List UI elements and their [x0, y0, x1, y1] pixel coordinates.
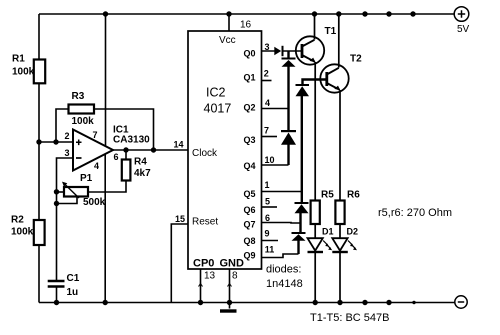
svg-text:4: 4 [94, 161, 99, 171]
svg-text:Q1: Q1 [243, 72, 255, 82]
wire Q0 pin3 to diode and T1 base [262, 50, 303, 52]
capacitor C1 [48, 281, 65, 287]
wire T1 emitter down to R5 [314, 62, 316, 201]
svg-text:4017: 4017 [204, 102, 232, 116]
wire diode chain A vertical Q2-Q4 [287, 145, 289, 166]
node dot top rail pin16 [226, 11, 231, 16]
diode B2 vertical [295, 202, 309, 213]
svg-text:15: 15 [175, 214, 185, 224]
diode A1 vertical [282, 58, 296, 67]
op-amp minus input mark [76, 157, 82, 159]
svg-text:Q4: Q4 [243, 161, 255, 171]
node dot bottom rail spare 2 [386, 300, 391, 305]
node dot bottom rail C1 [54, 300, 59, 305]
svg-text:R3: R3 [72, 91, 85, 102]
wire P1 wiper tie [57, 197, 78, 204]
svg-text:11: 11 [265, 245, 275, 255]
svg-text:IC2: IC2 [206, 86, 226, 100]
svg-text:14: 14 [174, 140, 184, 150]
diode B3 vertical [292, 232, 306, 241]
wire IC2 pin16 Vcc drop [228, 14, 230, 31]
svg-text:R4: R4 [134, 157, 147, 168]
node dot bottom rail spare 3 [412, 301, 415, 304]
node dot pin2 left rail [36, 139, 41, 144]
resistor R4 [122, 160, 131, 181]
diode A2 vertical [281, 130, 296, 145]
svg-text:P1: P1 [80, 173, 93, 184]
node dot top rail spare 3 [410, 11, 415, 16]
wire diode chain A vertical Q0-Q2 [287, 51, 289, 130]
svg-text:1u: 1u [67, 287, 79, 298]
svg-text:Reset: Reset [192, 216, 218, 227]
svg-text:R1: R1 [12, 54, 25, 65]
svg-text:Vcc: Vcc [219, 35, 236, 46]
diode B1 vertical [296, 84, 310, 96]
IC2 4017 box [188, 31, 262, 269]
wire IC2 pin8 drop to ground [229, 269, 231, 309]
ground symbol [220, 309, 237, 312]
op-amp plus input mark [76, 140, 82, 146]
wire chain B B1 to Q5 [301, 96, 303, 202]
svg-text:8: 8 [232, 271, 238, 282]
wire C1 bottom to rail [56, 286, 58, 303]
svg-text:10: 10 [265, 155, 275, 165]
svg-text:500k: 500k [83, 197, 106, 208]
node dot top rail T1 collector [312, 11, 317, 16]
svg-text:9: 9 [265, 229, 270, 239]
wire D1 to bottom rail [314, 253, 316, 303]
LED D1 [308, 238, 333, 252]
wire Q9 pin11 [262, 254, 299, 258]
wire top supply rail [39, 13, 454, 15]
node dot top rail pin7 [103, 11, 108, 16]
wire bottom rail [39, 302, 455, 304]
wire chain B B2 to Q7 [299, 213, 301, 232]
wire D2 to bottom rail [339, 253, 341, 303]
pin tick on pin13 drop [199, 284, 203, 287]
svg-text:100k: 100k [11, 227, 34, 238]
svg-text:Q5: Q5 [243, 189, 255, 199]
svg-text:CP0: CP0 [193, 257, 214, 269]
node dot top rail spare 2 [386, 11, 391, 16]
svg-text:D1: D1 [322, 227, 334, 237]
svg-text:1: 1 [265, 180, 270, 190]
svg-text:5V: 5V [457, 24, 470, 35]
svg-text:T1: T1 [325, 26, 337, 37]
wire R4 top leg [125, 150, 127, 160]
svg-text:diodes:: diodes: [266, 264, 301, 276]
wire Q7 pin6 [262, 222, 301, 225]
wire op-amp pin7 from top rail [105, 14, 107, 146]
svg-text:13: 13 [204, 271, 216, 282]
LED D2 [332, 238, 357, 252]
svg-text:R5: R5 [321, 190, 334, 201]
node dot bottom rail pin13 [198, 300, 203, 305]
wire chain B B3 to Q9 corner [297, 241, 299, 255]
svg-text:Q3: Q3 [243, 135, 255, 145]
svg-text:1n4148: 1n4148 [266, 278, 303, 290]
node dot pin2 R3 junction [53, 139, 58, 144]
svg-text:6: 6 [265, 213, 270, 223]
wire op-amp pin4 down to bottom rail [104, 154, 106, 303]
resistor R3 [69, 105, 95, 114]
potentiometer P1 body [64, 187, 88, 197]
svg-text:D2: D2 [347, 227, 359, 237]
svg-text:6: 6 [114, 152, 119, 162]
svg-text:R6: R6 [347, 190, 360, 201]
svg-text:4: 4 [265, 98, 270, 108]
wire Q1 pin2 stub [262, 80, 272, 82]
svg-text:7: 7 [93, 130, 98, 140]
wire Q5 pin1 [262, 191, 302, 193]
node dot output feedback [151, 147, 156, 152]
wire R5 to LED D1 [314, 224, 316, 238]
svg-text:GND: GND [220, 257, 245, 269]
wire P1 left terminal [57, 191, 65, 193]
svg-text:7: 7 [264, 126, 269, 136]
transistor T2 [320, 64, 348, 92]
wire T2 collector to top rail [338, 14, 340, 68]
node dot P1 wiper [54, 201, 59, 206]
svg-text:r5,r6: 270 Ohm: r5,r6: 270 Ohm [378, 207, 452, 219]
node dot top rail T2 collector [336, 11, 341, 16]
resistor R2 [34, 220, 45, 245]
resistor R5 [311, 201, 320, 225]
wire R3 right leg down to output node [94, 109, 154, 150]
node dot bottom rail D2 [337, 300, 342, 305]
node dot top rail spare 1 [362, 11, 367, 16]
node dot bottom rail pin8 [227, 300, 232, 305]
wire op-amp output to IC2 clock pin14 [113, 149, 188, 151]
wire Q6 pin5 stub [262, 206, 278, 208]
svg-text:CA3130: CA3130 [113, 135, 150, 146]
wire R4 bottom leg to P1 [88, 181, 126, 193]
wire Q4 pin10 [262, 164, 289, 166]
wire R3 left leg to pin2 node [56, 109, 69, 142]
node dot bottom rail pin4 [103, 300, 108, 305]
wire op-amp pin2 input [39, 141, 73, 143]
svg-text:3: 3 [65, 148, 70, 158]
svg-text:Q2: Q2 [243, 103, 255, 113]
svg-text:4k7: 4k7 [134, 168, 151, 179]
svg-text:Q9: Q9 [243, 251, 255, 261]
svg-text:16: 16 [240, 20, 252, 31]
wire Q8 pin9 stub [262, 240, 279, 242]
plus supply terminal [454, 7, 469, 22]
wire left rail [38, 14, 40, 303]
node dot P1 left [54, 189, 59, 194]
svg-text:Q6: Q6 [243, 205, 255, 215]
svg-text:Clock: Clock [192, 148, 218, 159]
svg-text:2: 2 [65, 131, 70, 141]
wire R6 to LED D2 [339, 224, 341, 238]
svg-text:R2: R2 [11, 215, 24, 226]
transistor T1 [296, 36, 324, 64]
wire Q2 pin4 [262, 108, 289, 110]
svg-text:100k: 100k [72, 116, 95, 127]
resistor R6 [335, 201, 344, 225]
wire T1 collector to top rail [314, 14, 316, 40]
wire T2 emitter down to R6 [339, 90, 341, 201]
svg-text:Q7: Q7 [243, 220, 255, 230]
svg-text:Q0: Q0 [243, 49, 255, 59]
wire op-amp pin3 input [57, 158, 74, 280]
potentiometer P1 wiper arrow [62, 182, 79, 198]
op-amp IC1 triangle [73, 130, 113, 171]
wire IC2 pin13 drop [200, 269, 202, 303]
node dot R4 top [123, 147, 128, 152]
svg-text:3: 3 [265, 42, 270, 52]
minus supply terminal [455, 296, 467, 308]
svg-text:100k: 100k [12, 67, 35, 78]
svg-text:T1-T5: BC 547B: T1-T5: BC 547B [310, 312, 389, 324]
wire Q3 pin7 stub [262, 136, 278, 138]
svg-text:Q8: Q8 [243, 236, 255, 246]
svg-text:C1: C1 [67, 273, 80, 284]
node dot bottom rail spare 1 [362, 300, 367, 305]
svg-text:T2: T2 [350, 54, 362, 65]
svg-text:2: 2 [264, 69, 269, 79]
wire T2 base lead and chain B top [303, 80, 327, 85]
diode D on Q0 wire horizontal [274, 46, 283, 56]
svg-text:5: 5 [265, 196, 270, 206]
resistor R1 [34, 60, 45, 84]
wire IC2 reset pin15 to bottom rail [171, 224, 188, 303]
node dot bottom rail D1 [313, 300, 318, 305]
pin tick on pin8 drop [228, 284, 232, 287]
